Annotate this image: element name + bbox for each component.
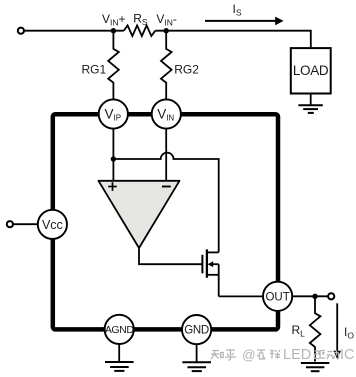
output terminal [328, 293, 334, 299]
op-amp U1 [99, 181, 180, 248]
terminal Vcc [7, 221, 13, 227]
远 [257, 350, 266, 359]
ground (load) [310, 94, 312, 105]
乎 [225, 350, 236, 361]
wire vcc [13, 223, 40, 225]
pin GND [182, 315, 211, 344]
input terminal [18, 28, 24, 34]
pin Vcc [38, 210, 67, 239]
ground (AGND) [118, 344, 120, 362]
翔 [270, 350, 280, 359]
ground (RL) [301, 362, 329, 364]
动 [327, 351, 339, 360]
pin AGND [105, 315, 134, 344]
wire feedback with hop to drain [113, 153, 218, 253]
svg-text:@: @ [242, 348, 256, 363]
resistor RL [310, 296, 321, 361]
resistor RG1 [108, 31, 119, 100]
resistor RG2 [161, 31, 172, 100]
pin VIN [152, 99, 181, 128]
ground (GND) [196, 344, 198, 362]
wire top-right [155, 31, 310, 49]
svg-text:RG2: RG2 [174, 62, 199, 76]
node junction [111, 156, 116, 161]
wire VIP to op-amp + input [112, 128, 114, 181]
svg-text:GND: GND [184, 325, 209, 337]
svg-text:IC: IC [340, 347, 355, 363]
node VIN+ [111, 28, 116, 33]
知 [211, 351, 221, 360]
load [291, 48, 331, 93]
current arrow IO [336, 303, 338, 351]
pin OUT [263, 282, 292, 311]
svg-text:OUT: OUT [265, 292, 289, 304]
IC boundary [53, 114, 278, 329]
svg-text:LED: LED [283, 347, 311, 363]
pin VIP [99, 99, 128, 128]
svg-text:RG1: RG1 [82, 62, 107, 76]
wire op-amp output to gate [139, 247, 202, 264]
svg-text:LOAD: LOAD [293, 63, 329, 78]
resistor RS [124, 25, 156, 36]
watermark [242, 347, 355, 363]
驱 [315, 351, 326, 359]
node out [312, 294, 317, 299]
transistor Q1 [201, 255, 203, 273]
node VIN- [164, 28, 169, 33]
wire source to OUT [219, 295, 270, 297]
wire VIN to op-amp - input [165, 128, 167, 181]
current arrow IS [205, 20, 276, 22]
svg-text:AGND: AGND [105, 324, 135, 336]
wire top-left [24, 30, 124, 32]
wire OUT to output terminal [285, 295, 328, 297]
svg-text:Vcc: Vcc [42, 218, 63, 232]
